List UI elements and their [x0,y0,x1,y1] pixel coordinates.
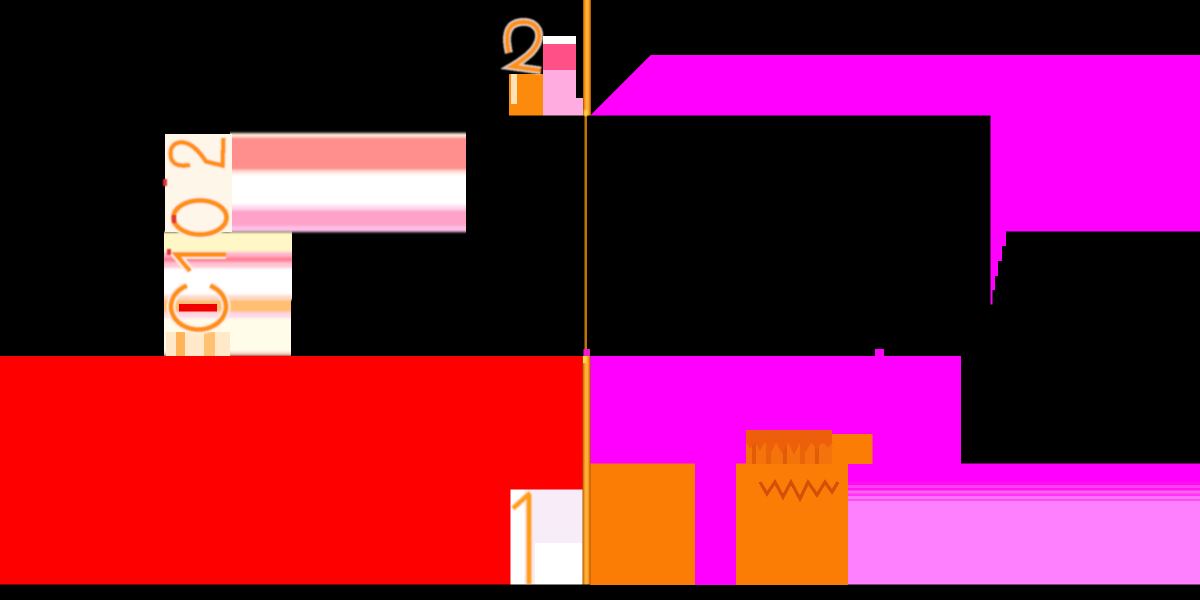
glow block (light pink) [848,501,1200,585]
smear gradient rows under magenta [848,481,1200,501]
junction dot at pin 1 [583,349,590,356]
glint at pin 2 tip [584,110,588,116]
hatched smear band over plate B (dark orange) [746,430,838,499]
reference designator C102 smear field (upper rows) [230,133,466,232]
capacitor C102 top plate (magenta polyline with bend) [590,55,1200,305]
pin number 2 smear blocks [509,36,583,116]
reference designator C102 glyph 0 [174,201,227,235]
capacitor C102 bottom plate (red) [0,356,583,585]
pin number 1 glow box (white) [511,490,583,585]
pin 1 (vertical orange pin line over plate) [583,356,591,585]
pin number 2 glyph [507,22,541,71]
pin number 1 glyph [513,493,530,584]
pin 1 top highlight [583,356,587,363]
plate fill block B upper lobe (orange) [822,434,873,464]
plate fill block A (orange) [590,464,695,586]
reference designator C102 text backdrop [165,134,232,232]
reference designator C102 glyph 2 (rotated) [171,138,224,166]
reference designator C102 glyph C (rotated) [171,286,226,330]
reference designator C102 smear field (lower rows) [164,232,292,356]
red smear bar inside glyph C [179,304,217,312]
capacitor C102 bottom plate (magenta) [590,349,1200,585]
reference designator C102 glyph 1 (rotated) [176,255,226,272]
wire (thin) from pin 2 to pin 1 [584,115,587,356]
plate fill block B (orange) [736,464,848,586]
red specks on glyph rims [163,179,176,255]
pin 2 (vertical orange pin line) [583,0,591,116]
reference designator C102 below-C smear columns [166,332,230,356]
